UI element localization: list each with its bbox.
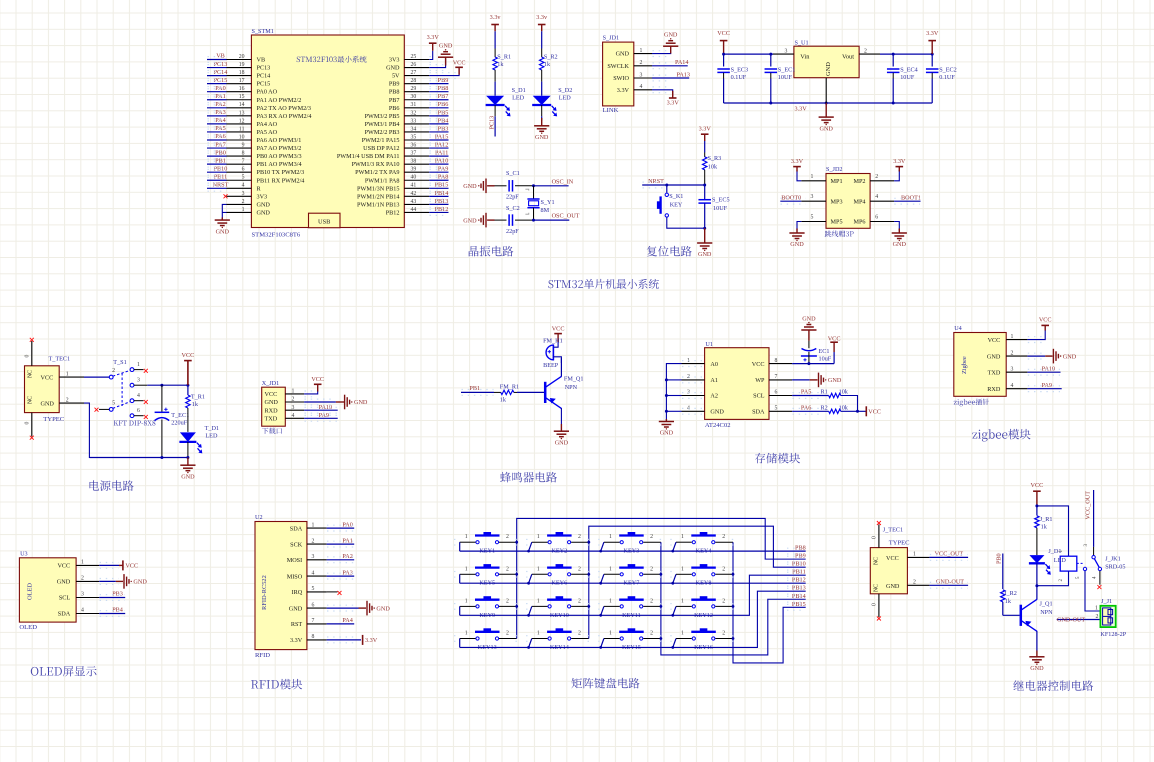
resistor R1 10k — [821, 389, 828, 396]
pin 30 right — [404, 99, 429, 101]
svg-text:S_U1: S_U1 — [795, 40, 809, 47]
svg-text:2: 2 — [578, 534, 581, 540]
pin 4 JD2 right — [870, 200, 894, 202]
wire pin5 SDA — [792, 410, 829, 412]
net label PC13 — [214, 61, 228, 68]
svg-text:16: 16 — [239, 86, 245, 92]
wire diagonal KEY7 — [601, 574, 604, 583]
svg-text:4: 4 — [312, 570, 315, 576]
push button KEY15 — [604, 638, 620, 640]
net label PA4 — [215, 117, 225, 124]
svg-text:1: 1 — [537, 566, 540, 572]
svg-text:1k: 1k — [1005, 598, 1012, 605]
wire net PB3 pin 34 — [429, 131, 448, 133]
junction R1R2 — [856, 410, 859, 413]
net label PB1 — [215, 157, 226, 164]
svg-text:NC: NC — [28, 396, 34, 404]
no-ERC marks near crystal — [525, 189, 528, 214]
svg-text:S_EC1: S_EC1 — [778, 66, 796, 73]
svg-text:Vin: Vin — [800, 53, 810, 60]
pin 1 TEC1 VCC — [59, 376, 84, 378]
wire net PA10 pin 38 — [429, 163, 448, 165]
push button KEY11 — [604, 605, 620, 607]
svg-text:1: 1 — [1011, 334, 1014, 340]
svg-text:S_C1: S_C1 — [506, 170, 520, 177]
junction reset gnd — [703, 227, 706, 230]
svg-text:GND: GND — [57, 579, 71, 586]
wire TEC1 pin2 down to rail — [84, 403, 162, 457]
svg-text:MOSI: MOSI — [287, 557, 302, 564]
svg-text:1: 1 — [537, 598, 540, 604]
pin 1 left — [227, 211, 252, 213]
wire S_D1 to PC13 — [494, 116, 496, 136]
svg-text:17: 17 — [239, 78, 245, 84]
svg-text:8: 8 — [775, 358, 778, 364]
svg-text:2: 2 — [722, 598, 725, 604]
svg-text:GND: GND — [828, 377, 842, 384]
svg-text:USB: USB — [318, 219, 330, 226]
designator S_STM1 — [252, 28, 274, 35]
svg-text:3.3V: 3.3V — [893, 158, 906, 165]
svg-text:GND: GND — [660, 430, 674, 437]
wire pin27 to VCC — [429, 69, 459, 76]
svg-text:GND: GND — [463, 183, 477, 190]
svg-text:10UF: 10UF — [900, 74, 915, 81]
power port 3.3V reset — [699, 126, 712, 135]
net label PA10 — [435, 158, 449, 165]
IC U1 AT24C02 — [705, 348, 769, 420]
svg-text:2: 2 — [292, 397, 295, 403]
svg-text:1: 1 — [640, 48, 643, 54]
pin 16 left — [227, 91, 252, 93]
pin 1 U1 — [682, 363, 705, 365]
switch contact 4 — [130, 399, 134, 403]
svg-text:1: 1 — [681, 631, 684, 637]
wire PB1 to FM_R1 — [461, 391, 494, 393]
wire net PB13 pin 43 — [429, 203, 448, 205]
svg-text:R1: R1 — [821, 389, 828, 396]
pin 3 JD2 left — [801, 200, 826, 202]
wire diagonal KEY12 — [673, 606, 676, 615]
no-connect X contact1 — [144, 369, 148, 373]
svg-text:1k: 1k — [192, 401, 199, 408]
svg-text:J_J1: J_J1 — [1101, 598, 1112, 605]
svg-text:2: 2 — [1096, 614, 1099, 620]
ground left of S_C2 — [463, 213, 486, 228]
pin 3 S_JD1 — [634, 77, 652, 79]
svg-text:2: 2 — [578, 566, 581, 572]
capacitor S_EC5 10UF — [704, 185, 706, 200]
svg-text:PC13: PC13 — [257, 65, 271, 72]
pin 1 U3 — [76, 564, 99, 566]
svg-text:PC13: PC13 — [488, 116, 495, 130]
capacitor S_C1 22pF — [508, 180, 510, 192]
svg-text:BOOT1: BOOT1 — [901, 194, 921, 201]
net label PB4 — [438, 117, 449, 124]
svg-text:7: 7 — [775, 374, 778, 380]
svg-text:SRD-05: SRD-05 — [1105, 564, 1125, 571]
svg-text:2: 2 — [722, 566, 725, 572]
svg-text:1k: 1k — [544, 61, 551, 68]
svg-text:Zigbee: Zigbee — [961, 356, 968, 374]
power port 3.3v LED column 1 — [490, 14, 502, 25]
pin 5 left — [227, 179, 252, 181]
svg-text:PA1 AO PWM2/2: PA1 AO PWM2/2 — [257, 97, 302, 104]
svg-text:S_JD1: S_JD1 — [603, 35, 620, 42]
svg-text:GND: GND — [555, 439, 569, 446]
part name STM32F103C8T6 — [252, 232, 301, 239]
pin 1 S_JD1 — [634, 53, 652, 55]
svg-text:NRST: NRST — [648, 178, 664, 185]
wire X_JD1 pin1 to VCC — [304, 391, 318, 394]
power port 3.3v LED column 2 — [536, 14, 548, 25]
pin 4 U4 — [1006, 388, 1027, 390]
svg-text:44: 44 — [411, 207, 417, 213]
svg-text:PWM3/2 PB5: PWM3/2 PB5 — [365, 113, 400, 120]
net label NRST — [213, 182, 229, 189]
svg-text:32: 32 — [411, 110, 417, 116]
wire row2 to PB12 — [460, 582, 806, 584]
svg-text:2: 2 — [650, 566, 653, 572]
pin 7 U2 — [307, 623, 327, 625]
svg-text:GND: GND — [886, 583, 900, 590]
LED T_D1 — [179, 432, 202, 453]
wire LED to collector node — [1036, 563, 1038, 585]
net label PC14 — [214, 69, 228, 76]
svg-text:29: 29 — [411, 86, 417, 92]
wire S_JD1 pin3 PA13 — [652, 77, 689, 79]
wire riser KEY5 — [459, 574, 461, 583]
pin 3 left — [227, 195, 252, 197]
pin 0 top TEC1 — [31, 341, 33, 366]
svg-text:PB9: PB9 — [389, 81, 400, 88]
net label PA5 — [801, 389, 811, 396]
ground buzzer — [560, 424, 562, 431]
wire U4 pin1 to VCC — [1027, 330, 1045, 340]
junction NRST-cap — [703, 184, 706, 187]
svg-text:T_EC1: T_EC1 — [171, 412, 189, 419]
wire net PB15 pin 41 — [429, 187, 448, 189]
svg-text:S_JD2: S_JD2 — [826, 166, 843, 173]
svg-text:1: 1 — [537, 534, 540, 540]
push button S_K1 KEY vertical — [657, 193, 669, 217]
svg-text:VCC_OUT: VCC_OUT — [1085, 491, 1092, 520]
label 跳线帽3P — [825, 231, 854, 238]
svg-text:T_D1: T_D1 — [205, 425, 219, 432]
svg-text:3V3: 3V3 — [389, 57, 400, 64]
wire pin8 VCC — [792, 363, 834, 365]
svg-text:GND: GND — [386, 65, 400, 72]
wire J_R2 to base — [1003, 614, 1020, 616]
power port 3.3V sideways RFID — [363, 635, 378, 645]
net label PB0 rotated — [996, 553, 1003, 564]
wire 3.3v to S_R1 — [494, 31, 496, 48]
svg-text:35: 35 — [411, 134, 417, 140]
pin 8 U1 — [769, 363, 792, 365]
svg-text:0: 0 — [25, 422, 31, 425]
pin 44 right — [404, 211, 429, 213]
push button KEY4 — [676, 541, 692, 543]
LED J_D1 — [1029, 555, 1051, 574]
svg-text:VCC: VCC — [1031, 482, 1044, 489]
svg-text:TYPEC: TYPEC — [889, 539, 910, 546]
pin 4 U1 — [682, 410, 705, 412]
ground relay — [1036, 651, 1038, 657]
wire GND to EC1 — [808, 330, 810, 341]
svg-text:PA3 RX AO PWM2/4: PA3 RX AO PWM2/4 — [257, 113, 312, 120]
wire U2 pin4 PA3 — [327, 575, 355, 577]
wire net PA8 pin 40 — [429, 179, 448, 181]
ground above EC1 — [801, 316, 816, 331]
pin 8 U2 — [307, 639, 327, 641]
net label PA5 — [215, 125, 225, 132]
wire net PB1 pin 7 — [207, 163, 227, 165]
push button KEY13 — [460, 638, 476, 640]
pin 3 U1 — [682, 395, 705, 397]
power port VCC storage — [833, 342, 835, 352]
wire U2 pin1 PA0 — [327, 527, 355, 529]
svg-text:2: 2 — [640, 60, 643, 66]
wire X_JD1 pin2 to GND — [304, 401, 336, 403]
wire 3.3V rail right — [880, 53, 932, 55]
svg-text:PB1 AO PWM3/4: PB1 AO PWM3/4 — [257, 161, 302, 168]
svg-text:2: 2 — [650, 598, 653, 604]
svg-text:43: 43 — [411, 199, 417, 205]
svg-text:FM_Q1: FM_Q1 — [564, 376, 584, 383]
switch blade 5-4 dashed — [113, 402, 131, 409]
capacitor S_C2 22pF — [508, 214, 510, 226]
pin 7 U1 — [769, 379, 792, 381]
svg-text:SCL: SCL — [753, 393, 765, 400]
junction dots columns — [515, 541, 518, 544]
svg-text:0: 0 — [872, 603, 878, 606]
svg-text:34: 34 — [411, 126, 417, 132]
junction left bus — [665, 378, 668, 381]
net label PA4 — [342, 617, 352, 624]
label OLED rotated — [26, 583, 33, 600]
USB box — [309, 213, 341, 228]
regulator S_U1 box — [794, 46, 859, 77]
svg-text:LED: LED — [1054, 557, 1067, 564]
wire S_D2 to GND — [541, 116, 543, 120]
net label PA1 — [342, 537, 352, 544]
ground sideways X_JD1 — [345, 395, 368, 410]
buzzer FM_H1 — [543, 337, 563, 344]
wire column4 to PB15 — [733, 542, 806, 663]
svg-text:J_Q1: J_Q1 — [1040, 601, 1053, 608]
connector T_TEC1 TYPEC — [25, 366, 60, 413]
push button KEY3 — [604, 541, 620, 543]
net label PA11 — [435, 150, 448, 157]
svg-text:1: 1 — [242, 207, 245, 213]
wire U4 pin4 PA9 — [1027, 388, 1061, 390]
pin 2 U2 — [307, 543, 327, 545]
svg-text:GND: GND — [181, 473, 195, 480]
net label PB11 — [214, 173, 228, 180]
net label PB6 — [438, 101, 449, 108]
LED S_D2 — [532, 96, 557, 116]
svg-text:PB0 AO PWM3/3: PB0 AO PWM3/3 — [257, 153, 302, 160]
wire diagonal KEY14 — [529, 639, 532, 648]
svg-text:T_S1: T_S1 — [113, 359, 126, 366]
wire net PA0 pin 16 — [207, 91, 227, 93]
svg-text:1: 1 — [81, 560, 84, 566]
label OLED below — [19, 624, 37, 631]
svg-text:NPN: NPN — [565, 384, 578, 391]
net label PA6 — [801, 405, 811, 412]
svg-text:2: 2 — [864, 48, 867, 54]
svg-text:SWIO: SWIO — [613, 75, 629, 82]
wire R2 to VCC — [841, 410, 866, 412]
net label PB9 — [438, 77, 449, 84]
svg-text:TYPEC: TYPEC — [43, 416, 64, 423]
label BEEP — [543, 362, 559, 369]
net label PA0 — [342, 521, 352, 528]
svg-text:3: 3 — [640, 72, 643, 78]
wire net PB9 pin 28 — [429, 83, 448, 85]
pin 29 right — [404, 91, 429, 93]
svg-text:2: 2 — [722, 534, 725, 540]
svg-text:4: 4 — [292, 413, 295, 419]
pin 0 top J_TEC1 — [878, 525, 880, 548]
svg-text:41: 41 — [411, 183, 417, 189]
svg-text:22pF: 22pF — [506, 228, 519, 235]
wire net VB pin 20 — [207, 59, 227, 61]
wire crystal bottom — [533, 208, 535, 220]
wire row4 to PB13 — [460, 591, 806, 647]
junction NRST-key — [665, 184, 668, 187]
svg-text:3.3V: 3.3V — [926, 30, 939, 37]
capacitor S_EC2 0.1UF — [931, 54, 933, 66]
net label PB1 — [469, 385, 480, 392]
wire X_JD1 pin4 PA9 — [304, 417, 338, 419]
relay link dashed — [1077, 562, 1083, 564]
svg-text:20: 20 — [239, 54, 245, 60]
label STM32F103最小系统 inside box — [297, 56, 367, 63]
svg-text:S_STM1: S_STM1 — [252, 28, 274, 35]
svg-text:36: 36 — [411, 142, 417, 148]
push button KEY7 — [604, 573, 620, 575]
svg-text:3: 3 — [292, 405, 295, 411]
wire VCC_OUT vertical to switch — [1093, 490, 1095, 547]
power port VCC buzzer — [552, 326, 565, 334]
svg-text:8: 8 — [312, 634, 315, 640]
net label PA15 — [435, 133, 449, 140]
svg-text:GND: GND — [893, 241, 907, 248]
junction pin8 — [807, 362, 810, 365]
wire VCC_OUT — [929, 556, 968, 558]
net label PB13 — [435, 198, 449, 205]
no-connect X contact4 — [144, 400, 148, 404]
net label PB3 — [438, 125, 449, 132]
net label PA8 — [438, 174, 448, 181]
svg-text:S_R3: S_R3 — [708, 155, 722, 162]
net label PA13 — [676, 71, 690, 78]
svg-text:1: 1 — [681, 566, 684, 572]
svg-text:2: 2 — [506, 631, 509, 637]
svg-text:1: 1 — [609, 631, 612, 637]
svg-text:A1: A1 — [710, 377, 718, 384]
push button KEY12 — [676, 605, 692, 607]
pin 32 right — [404, 115, 429, 117]
junction collector node — [1035, 584, 1038, 587]
net label PB8 — [438, 85, 449, 92]
pin 8 left — [227, 155, 252, 157]
svg-text:6: 6 — [242, 167, 245, 173]
svg-text:6: 6 — [875, 215, 878, 221]
wire bottom 3.3V rail — [724, 102, 933, 104]
wire U2 GND — [327, 607, 359, 609]
svg-text:RST: RST — [291, 621, 303, 628]
svg-text:1: 1 — [1095, 606, 1098, 612]
svg-text:1: 1 — [811, 174, 814, 180]
svg-text:SDA: SDA — [58, 611, 71, 618]
label zigbee插针 — [954, 399, 989, 407]
svg-text:SCK: SCK — [290, 541, 303, 548]
pin 3 X_JD1 — [285, 409, 304, 411]
net label PA7 — [215, 141, 225, 148]
svg-text:5: 5 — [242, 175, 245, 181]
switch contact 2 — [109, 375, 113, 379]
power port 3.3V JD2 pin2 — [894, 170, 899, 181]
svg-text:5V: 5V — [392, 73, 400, 80]
wire riser KEY13 — [459, 639, 461, 648]
svg-text:5: 5 — [811, 215, 814, 221]
svg-text:8M: 8M — [541, 207, 550, 214]
net label PA14 — [675, 59, 689, 66]
wire FM_R1 to base — [517, 391, 544, 393]
svg-text:2: 2 — [81, 576, 84, 582]
svg-text:PA2: PA2 — [342, 553, 352, 560]
wire U2 pin2 PA1 — [327, 543, 355, 545]
wire EC1 to pin8 — [808, 352, 810, 364]
svg-text:0: 0 — [872, 536, 878, 539]
wire GND-OUT — [929, 584, 968, 586]
pin 1 X_JD1 — [285, 393, 304, 395]
svg-text:2: 2 — [722, 631, 725, 637]
svg-text:2: 2 — [506, 566, 509, 572]
pin 1 J_TEC1 — [907, 556, 929, 558]
resistor S_R2 1k — [541, 49, 543, 58]
IC U4 zigbee — [954, 333, 1006, 397]
wire bottom rail power circuit — [89, 457, 187, 459]
svg-text:28: 28 — [411, 78, 417, 84]
svg-text:VCC: VCC — [868, 409, 881, 416]
svg-text:GND: GND — [664, 32, 678, 39]
svg-text:GND: GND — [790, 241, 804, 248]
svg-text:U1: U1 — [705, 341, 713, 348]
svg-text:1: 1 — [609, 534, 612, 540]
wire row3 to PB11 — [460, 575, 806, 615]
svg-text:GND: GND — [710, 409, 724, 416]
svg-text:IRQ: IRQ — [292, 589, 303, 596]
wire X_JD1 pin3 PA10 — [304, 409, 338, 411]
pin 27 right — [404, 75, 429, 77]
svg-text:PA0 AO: PA0 AO — [257, 89, 278, 96]
junction bottom rail — [160, 456, 163, 459]
net label BOOT1 — [901, 194, 921, 201]
label RFID-RC522 rotated — [261, 575, 268, 610]
svg-text:0: 0 — [25, 355, 31, 358]
U1 GND pin down — [825, 78, 827, 103]
wire diagonal KEY2 — [529, 542, 532, 551]
pin 14 left — [227, 107, 252, 109]
wire diagonal KEY8 — [673, 574, 676, 583]
svg-text:PA3: PA3 — [342, 569, 352, 576]
svg-text:GND: GND — [216, 228, 230, 235]
svg-text:PWM1/3N PB15: PWM1/3N PB15 — [357, 185, 399, 192]
wire BOOT1 — [894, 200, 920, 202]
